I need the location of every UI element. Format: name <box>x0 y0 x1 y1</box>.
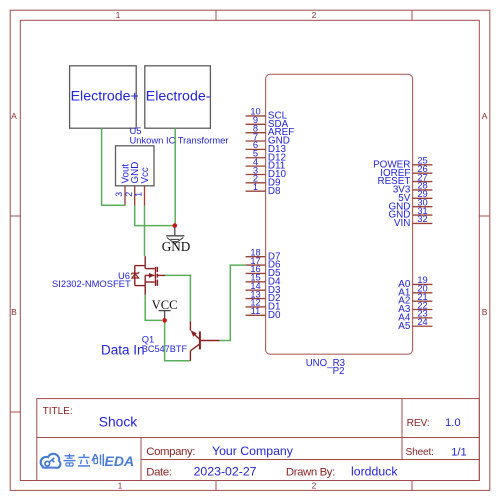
svg-text:1: 1 <box>253 182 258 192</box>
uno pin 18 D7 <box>246 248 281 263</box>
frame tick bottom <box>215 481 217 491</box>
uno pin 29 5V <box>398 189 432 204</box>
uno pin 2 D9 <box>246 174 281 189</box>
wire mosfet source to vcc junction <box>145 295 162 321</box>
wire U5 pin1 to mosfet drain <box>144 206 146 257</box>
junction dot vcc <box>162 318 167 323</box>
uno pin 32 VIN <box>394 214 432 229</box>
uno pin 21 A2 <box>398 292 432 307</box>
svg-text:lordduck: lordduck <box>351 464 398 478</box>
uno pin 23 A4 <box>398 309 432 324</box>
transistor Q1 <box>190 321 219 361</box>
uno pin 13 D2 <box>246 289 281 304</box>
uno pin 31 GND <box>388 206 432 221</box>
svg-text:P2: P2 <box>333 366 345 377</box>
svg-text:Company:: Company: <box>146 446 195 458</box>
electrode+ box <box>70 66 137 128</box>
uno pin 24 A5 <box>398 317 432 332</box>
svg-text:1: 1 <box>118 481 123 491</box>
frame tick bottom2 <box>411 481 413 491</box>
svg-text:Unkown IC Transformer: Unkown IC Transformer <box>130 134 229 145</box>
wire U5 pin2 to gnd junction <box>135 206 175 226</box>
title block row line 1 <box>37 437 480 439</box>
svg-text:B: B <box>11 307 17 317</box>
svg-text:EDA: EDA <box>105 453 135 469</box>
uno pin 30 GND <box>388 197 432 212</box>
uno pin 25 POWER <box>373 156 432 171</box>
uno pin 27 RESET <box>377 172 432 187</box>
svg-text:Electrode-: Electrode- <box>146 88 211 104</box>
svg-text:2023-02-27: 2023-02-27 <box>194 464 257 478</box>
logo cloud icon <box>40 453 62 469</box>
svg-text:Electrode+: Electrode+ <box>71 88 139 104</box>
uno pin 1 D8 <box>246 182 281 197</box>
uno pin 6 D13 <box>246 140 287 155</box>
svg-text:B: B <box>482 307 488 317</box>
wire electrode+ to U5 pin3 <box>102 128 125 205</box>
svg-text:Your Company: Your Company <box>212 444 294 458</box>
svg-text:2: 2 <box>312 481 317 491</box>
wire transistor base to uno D6 <box>220 265 246 340</box>
uno pin 17 D6 <box>246 256 281 271</box>
frame tick left <box>10 215 20 217</box>
frame tick top2 <box>411 10 413 20</box>
mosfet U6 <box>132 256 165 295</box>
U5 pin 2 stub <box>134 186 136 206</box>
logo hanzi chuang <box>92 454 103 466</box>
svg-text:TITLE:: TITLE: <box>43 406 73 417</box>
title block outline <box>37 399 480 481</box>
svg-text:32: 32 <box>417 214 427 224</box>
wire mosfet bulk to transistor emitter <box>165 275 190 321</box>
uno pin 7 GND <box>246 132 290 147</box>
svg-text:A: A <box>482 111 488 121</box>
svg-text:2: 2 <box>124 192 134 197</box>
ground symbol <box>166 227 184 244</box>
uno U? box <box>266 74 413 354</box>
svg-text:SI2302-NMOSFET: SI2302-NMOSFET <box>52 278 131 289</box>
uno pin 12 D1 <box>246 298 281 313</box>
junction dot gnd <box>173 223 178 228</box>
uno pin 15 D4 <box>246 273 281 288</box>
title block row line 2 <box>141 459 479 461</box>
uno pin 11 D0 <box>246 306 281 321</box>
svg-text:1: 1 <box>116 10 121 20</box>
svg-text:GND: GND <box>162 239 191 254</box>
uno pin 8 AREF <box>246 123 295 138</box>
svg-text:11: 11 <box>251 306 261 316</box>
title block col line logo <box>140 438 142 481</box>
svg-text:Vcc: Vcc <box>140 167 151 183</box>
svg-text:VIN: VIN <box>394 218 410 229</box>
svg-text:A: A <box>11 111 17 121</box>
svg-text:VCC: VCC <box>152 298 178 312</box>
svg-text:24: 24 <box>417 317 427 327</box>
svg-text:1/1: 1/1 <box>451 446 467 458</box>
svg-text:D8: D8 <box>268 186 281 197</box>
U5 pin 3 stub <box>124 186 126 206</box>
logo hanzi li <box>78 454 90 466</box>
uno pin 3 D10 <box>246 165 287 180</box>
wire electrode- to gnd junction <box>174 128 176 225</box>
svg-text:Shock: Shock <box>99 414 137 429</box>
title block col line rev <box>401 399 403 460</box>
svg-text:Drawn By:: Drawn By: <box>286 466 335 478</box>
frame tick left2 <box>10 411 20 413</box>
svg-text:A5: A5 <box>398 321 411 332</box>
svg-text:Data In: Data In <box>101 342 145 357</box>
uno pin 10 SCL <box>246 107 288 122</box>
logo hanzi jia <box>64 454 76 466</box>
svg-text:1.0: 1.0 <box>445 417 461 429</box>
svg-text:3: 3 <box>114 192 124 197</box>
svg-text:Sheet:: Sheet: <box>406 447 434 458</box>
uno pin 20 A1 <box>398 284 432 299</box>
uno pin 19 A0 <box>398 275 432 290</box>
svg-text:2: 2 <box>312 10 317 20</box>
uno pin 9 SDA <box>246 115 289 130</box>
U5 pin 1 stub <box>144 186 146 206</box>
frame tick right <box>479 215 490 217</box>
svg-text:D0: D0 <box>268 310 281 321</box>
svg-text:Date:: Date: <box>146 466 171 478</box>
uno pin 22 A3 <box>398 300 432 315</box>
uno pin 28 3V3 <box>393 181 433 196</box>
wire vcc junction to transistor collector <box>165 323 191 361</box>
svg-text:BC547BTF: BC547BTF <box>142 344 188 354</box>
svg-text:1: 1 <box>134 192 144 197</box>
uno pin 14 D3 <box>246 281 281 296</box>
transformer U5 box <box>116 146 155 186</box>
vcc power symbol <box>159 311 171 321</box>
uno pin 4 D11 <box>246 157 286 172</box>
electrode- box <box>145 66 211 128</box>
uno pin 5 D12 <box>246 149 286 164</box>
uno pin 16 D5 <box>246 264 281 279</box>
svg-text:REV:: REV: <box>407 418 430 429</box>
frame tick top <box>215 10 217 20</box>
uno pin 26 IOREF <box>380 164 432 179</box>
